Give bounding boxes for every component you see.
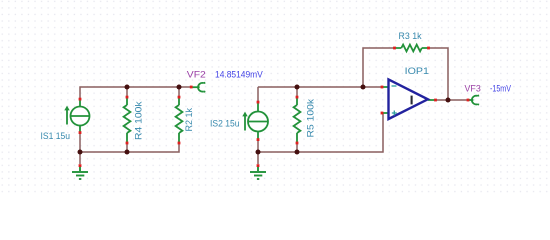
wire: left circuit bottom rail <box>80 143 179 152</box>
wire: R4 bottom stub <box>126 143 128 152</box>
pin IS1 top <box>79 98 82 101</box>
ground middle <box>250 166 266 179</box>
pin IS2 top <box>257 101 260 104</box>
pin R3 right <box>427 47 430 50</box>
wire: R5 top stub <box>296 87 298 97</box>
junction at IS1 bottom / ground <box>78 150 83 155</box>
pin IS1 bottom <box>79 131 82 134</box>
pin ground middle <box>257 164 260 167</box>
junction at R4 bottom <box>125 150 130 155</box>
pin op-amp output <box>434 99 437 102</box>
pin R4 top <box>126 96 129 99</box>
pin op-amp non-inverting input <box>381 112 384 115</box>
wire: R2 top stub <box>178 87 180 97</box>
pin R3 left <box>393 47 396 50</box>
junction at R4 top <box>125 85 130 90</box>
pin R4 bottom <box>126 142 129 145</box>
wire: middle top rail to op-amp inverting input <box>258 86 382 88</box>
op-amp IOP1 <box>383 79 435 119</box>
resistor R3 <box>395 45 429 52</box>
svg-text:-15mV: -15mV <box>490 83 511 94</box>
svg-text:14.85149mV: 14.85149mV <box>215 69 263 80</box>
junction at feedback tap <box>361 85 366 90</box>
voltage probe VF2 <box>192 83 205 92</box>
junction at R5 top <box>295 85 300 90</box>
svg-text:R4 100k: R4 100k <box>134 101 145 140</box>
wire: op-amp output to probe <box>436 99 467 101</box>
resistor R4 <box>124 97 131 143</box>
svg-text:R3 1k: R3 1k <box>399 31 422 42</box>
svg-text:VF3: VF3 <box>465 83 481 94</box>
svg-text:IOP1: IOP1 <box>405 66 429 77</box>
pin R5 bottom <box>296 142 299 145</box>
junction at IS2 bottom / ground <box>256 150 261 155</box>
junction at R5 bottom <box>295 150 300 155</box>
svg-text:IS2 15u: IS2 15u <box>210 119 240 130</box>
junction at R2 top <box>177 85 182 90</box>
current source IS2 <box>242 102 268 140</box>
wire: middle bottom rail to op-amp non-inverting input <box>258 113 383 152</box>
pin probe VF3 <box>467 99 470 102</box>
svg-text:IS1 15u: IS1 15u <box>41 131 71 142</box>
current source IS1 <box>64 99 89 133</box>
svg-text:R5 100k: R5 100k <box>306 99 317 138</box>
pin IS2 bottom <box>257 138 260 141</box>
pin ground left <box>79 164 82 167</box>
wire: feedback right leg from R3 to output <box>430 48 449 100</box>
ground left <box>72 166 88 179</box>
wire: feedback left leg to R3 <box>363 48 394 87</box>
wire: R5 bottom stub <box>296 143 298 152</box>
junction at output node <box>446 98 451 103</box>
pin R5 top <box>296 96 299 99</box>
pin R2 top <box>178 96 181 99</box>
voltage probe VF3 <box>469 95 479 104</box>
resistor R5 <box>294 97 301 143</box>
wire: middle ground stem <box>257 152 259 164</box>
wire: IS1 bottom to rail <box>79 133 81 153</box>
pin op-amp inverting input <box>381 86 384 89</box>
wire: R4 top stub <box>126 87 128 97</box>
wire: IS2 bottom stub <box>257 140 259 153</box>
pin R2 bottom <box>178 142 181 145</box>
wire: IS2 top stub <box>257 87 259 102</box>
svg-text:R2 1k: R2 1k <box>184 108 195 132</box>
pin probe VF2 <box>190 86 193 89</box>
resistor R2 <box>176 97 183 143</box>
svg-text:VF2: VF2 <box>187 69 206 80</box>
wire: left circuit top rail <box>80 87 191 100</box>
wire: left ground stem <box>79 152 81 164</box>
